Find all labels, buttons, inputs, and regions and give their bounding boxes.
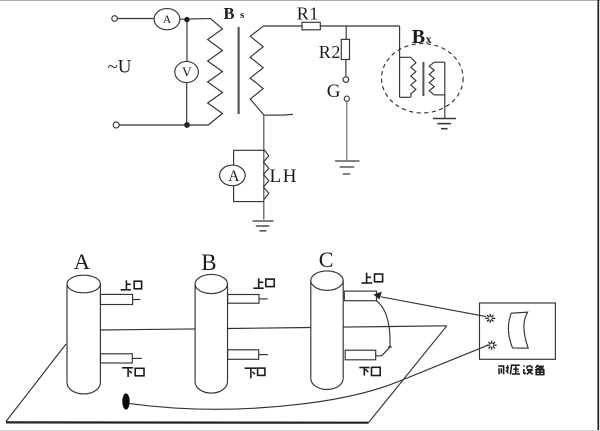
glyph 压: [511, 364, 520, 366]
junction dot bottom: [184, 122, 190, 128]
glyph 备: [536, 365, 538, 368]
ammeter A2 bracket top: [234, 150, 264, 165]
tank B upper port tab: [228, 295, 259, 304]
label 耐压设备 under tester box: [498, 365, 544, 375]
Bx right winding: [429, 62, 434, 95]
Bx left winding: [411, 58, 416, 98]
gap terminal lower (node G): [344, 96, 349, 101]
svg-text:G: G: [327, 81, 341, 102]
secondary bottom tap stub: [264, 113, 293, 116]
cylinder C bottom arc: [311, 378, 343, 389]
ground under LH: [253, 221, 274, 231]
tank A upper port lead: [133, 299, 141, 301]
cylinder A top ellipse: [67, 275, 100, 293]
wire secondary bottom down through LH: [263, 115, 265, 219]
Bx core: [422, 62, 424, 96]
inductor LH winding: [264, 150, 269, 200]
tank A lower port tab: [101, 354, 133, 363]
ground plate bottom edge: [6, 421, 369, 424]
wire terminal to ammeter: [117, 18, 153, 20]
junction dot top: [184, 17, 189, 22]
label 下口 at tank B: [245, 368, 265, 378]
arc wire from lower port to upper port area: [376, 301, 390, 347]
svg-text:A: A: [163, 14, 172, 26]
resistor R1: [302, 22, 320, 30]
ground plate left slant: [6, 344, 66, 422]
tank B upper port lead: [259, 298, 268, 300]
wire ammeter to transformer primary: [180, 18, 211, 21]
glyph 耐: [498, 365, 504, 367]
tick at wire bend: [388, 346, 392, 348]
Bx left bracket arms: [400, 56, 411, 58]
gap terminal upper: [343, 77, 349, 83]
voltmeter V: [175, 61, 199, 82]
svg-text:~U: ~U: [108, 57, 132, 78]
label 上口 at tank C: [361, 273, 382, 284]
cylinder C top ellipse: [311, 271, 343, 290]
ammeter A1: [154, 9, 180, 30]
wire C lower port routed up: [376, 347, 390, 356]
arrowhead at C upper port: [373, 292, 381, 300]
wire bottom terminal to primary: [119, 124, 208, 126]
Bx right bracket arms: [434, 61, 445, 63]
tank C lower port tab: [345, 350, 376, 360]
terminal bottom-left input: [113, 122, 119, 128]
svg-text:R1: R1: [297, 4, 319, 24]
terminal top-left input: [112, 16, 118, 22]
transformer Bx dashed ellipse: [382, 44, 464, 113]
wire secondary top to R1: [264, 25, 302, 27]
cylinder B left side: [194, 284, 196, 382]
tank B lower port tab: [228, 350, 259, 360]
connection bus A to B: [100, 329, 195, 330]
wire tester to arrow: [381, 297, 486, 317]
tank B lower port lead: [259, 354, 268, 356]
wire R1 to corner: [320, 25, 399, 27]
tank C upper port tab: [344, 291, 376, 301]
wire branch to R2: [345, 26, 347, 39]
svg-text:A: A: [228, 168, 240, 185]
wire Bx to ground: [444, 62, 446, 118]
tester terminal star upper: [485, 314, 495, 323]
tester terminal star lower: [487, 341, 497, 350]
svg-text:V: V: [182, 65, 192, 80]
wire voltmeter to bottom junction: [186, 83, 188, 125]
ground plate right slant: [369, 326, 447, 423]
svg-text:R2: R2: [319, 42, 341, 62]
tester curved electrode: [508, 312, 528, 348]
svg-text:A: A: [74, 249, 91, 274]
ammeter A2: [220, 165, 246, 186]
cylinder C left side: [310, 281, 312, 379]
label 下口 at tank A: [122, 368, 144, 377]
wire G to ground: [346, 101, 348, 160]
ground under G: [335, 161, 359, 174]
cylinder B top ellipse: [195, 274, 227, 293]
connection bus C to plate corner: [343, 326, 447, 327]
label 下口 at tank C: [359, 367, 380, 375]
ground under Bx: [433, 119, 456, 129]
tank A lower port lead: [132, 357, 142, 359]
label 上口 at tank A: [121, 280, 142, 290]
ground lead curve from blob to tester: [130, 345, 488, 409]
transformer Bs core: [238, 27, 240, 114]
wire junction to voltmeter: [186, 21, 188, 61]
cylinder A bottom arc: [67, 383, 100, 394]
svg-text:C: C: [319, 247, 334, 272]
grounding blob on plate: [122, 393, 129, 409]
glyph 设: [524, 366, 525, 367]
transformer Bs primary winding: [208, 19, 223, 125]
cylinder A right side: [99, 284, 101, 383]
svg-text:B: B: [201, 250, 216, 275]
wire corner down to Bx: [399, 26, 401, 97]
label 上口 at tank B: [253, 278, 274, 288]
tank A upper port tab: [101, 294, 133, 304]
resistor R2: [341, 39, 349, 59]
cylinder B bottom arc: [195, 382, 227, 393]
ammeter A2 bracket bottom: [234, 186, 264, 202]
transformer Bs secondary winding: [250, 26, 264, 115]
svg-text:LH: LH: [270, 166, 299, 187]
cylinder B right side: [227, 284, 229, 382]
wire R2 to gap terminal: [345, 60, 347, 77]
withstand tester box: [480, 303, 556, 359]
cylinder C right side: [342, 281, 344, 379]
cylinder A left side: [66, 284, 68, 383]
connection bus B to C: [228, 328, 311, 329]
